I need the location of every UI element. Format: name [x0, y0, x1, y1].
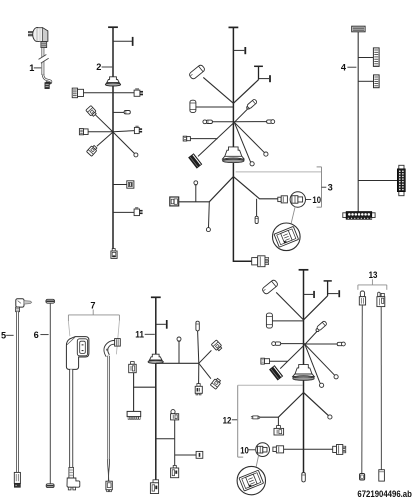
connector 5a angle plug	[16, 299, 32, 312]
harness4 trunk wire	[357, 32, 359, 212]
cable W7L	[69, 369, 74, 478]
connector 2g	[134, 208, 143, 216]
harness2 right branch wire	[113, 92, 134, 94]
connector 12g box	[274, 426, 284, 435]
connector 2b	[134, 89, 143, 96]
connector 3c small cyl	[247, 99, 258, 109]
label 11	[135, 330, 155, 340]
callout line 12	[238, 384, 303, 386]
connector 12i injector plug	[333, 445, 346, 455]
connector 4b card	[373, 48, 379, 67]
connector 7d plug	[106, 481, 112, 491]
connector 3g plug	[278, 196, 288, 203]
detail circle 10b	[237, 466, 265, 494]
bracket 13	[358, 279, 387, 290]
callout circle 10a	[290, 192, 305, 207]
connector 11d box	[195, 384, 202, 395]
harness12 lateral branch	[284, 448, 333, 450]
svg-text:2: 2	[96, 62, 101, 72]
harness3 stub cylinder pin	[255, 199, 258, 224]
harness12 star ring wire 1	[305, 344, 324, 387]
connector 6b cap	[46, 484, 54, 488]
harness3 star ring wire 1	[234, 122, 268, 156]
label 1	[29, 63, 41, 73]
harness2 grommet	[105, 77, 120, 86]
harness11 left branch	[134, 373, 156, 412]
detail circle 10a	[273, 223, 301, 251]
cable W7R	[108, 356, 110, 481]
connector 4a top ribbon	[352, 26, 365, 32]
harness2 star wire right	[113, 131, 134, 132]
connector 13b	[360, 474, 365, 480]
connector 2c angled	[86, 106, 98, 118]
harness3 Y left wire	[179, 177, 234, 202]
connector 11g ring box	[171, 410, 179, 420]
power cord plug P1	[28, 27, 48, 47]
svg-text:7: 7	[90, 301, 95, 311]
harness12 star ring wire 2	[305, 344, 338, 379]
connector 12e	[261, 358, 270, 364]
bracket 7	[68, 310, 119, 355]
callout leader 3-10	[291, 207, 295, 224]
harness11 grommet	[148, 354, 163, 363]
connector 3a tilted cylinder	[188, 64, 205, 80]
label 12	[223, 415, 232, 425]
connector 12c small cyl	[316, 321, 327, 332]
harness3 trunk wire	[233, 27, 251, 261]
callout line 3	[236, 171, 322, 173]
connector 2h bottom	[111, 249, 117, 259]
label 3	[328, 183, 333, 193]
connector 11b angled	[211, 340, 223, 352]
connector 3d hatched	[189, 154, 202, 168]
connector 7b plug	[67, 478, 80, 490]
svg-text:3: 3	[328, 183, 333, 193]
harness2 pin branch	[113, 111, 130, 114]
harness3 star wire to hatch	[198, 122, 234, 156]
connector 13a	[359, 291, 365, 305]
label 5	[1, 330, 14, 340]
harness11 ring pin up	[177, 337, 181, 363]
harness12 stub to box	[277, 417, 279, 425]
harness11 trunk wire	[155, 297, 157, 480]
harness12 star wire up-right	[305, 330, 318, 344]
harness12 trunk wire	[303, 270, 305, 473]
harness3 top cap	[229, 26, 239, 28]
harness3 grommet	[223, 147, 245, 163]
harness3 stub ring down	[206, 202, 210, 232]
harness12 star right pin	[305, 342, 345, 346]
harness11 star wire down	[198, 363, 200, 383]
harness12 top cap	[299, 269, 309, 271]
power cord cable W1	[38, 48, 50, 75]
cable W13R	[380, 307, 382, 470]
harness11 I-box branch	[175, 451, 203, 458]
connector 12h plug left	[273, 446, 284, 453]
harness12 Y left wire	[260, 393, 304, 418]
svg-text:10: 10	[240, 445, 249, 455]
connector 2f angled	[86, 144, 98, 156]
connector 11h box	[171, 466, 179, 478]
cable W13L	[361, 305, 364, 474]
harness4 branch 2	[358, 80, 373, 82]
harness3 upper-right stub	[233, 66, 271, 103]
harness2 fuse box branch	[113, 181, 134, 188]
connector 3h injector plug	[252, 256, 269, 267]
harness11 star wire down-right	[199, 363, 211, 378]
svg-text:1: 1	[29, 63, 34, 73]
connector 7a boot	[66, 337, 89, 370]
harness2 star wire down-right ring	[113, 132, 138, 157]
label 4	[341, 62, 357, 72]
label 10b	[240, 445, 255, 455]
label 10a	[306, 195, 321, 205]
harness2 branch to I-terminal	[113, 37, 134, 46]
harness3 star right pin	[233, 120, 274, 124]
connector 13d cylinder	[379, 470, 385, 481]
svg-text:6: 6	[34, 330, 39, 340]
harness11 branch I-terminal	[156, 320, 168, 329]
connector 11a small cyl	[196, 321, 199, 363]
harness12 bottom tip	[302, 473, 306, 482]
harness3 Y right wire	[233, 177, 277, 199]
connector 4c card	[374, 75, 380, 88]
harness3 feed wire	[190, 138, 217, 140]
callout leader 12-10	[256, 455, 258, 466]
bracket 12	[232, 385, 243, 457]
harness3 wire left cylinder	[196, 106, 233, 108]
harness2 star wire up-left	[95, 115, 113, 132]
harness3 stub pin ring up	[194, 181, 198, 202]
harness12 grommet	[293, 365, 315, 381]
harness4 branch 1	[358, 57, 373, 59]
connector 11c angled	[210, 377, 221, 389]
harness2 star wire left	[88, 131, 113, 133]
harness4 branch 3	[358, 180, 397, 182]
svg-text:12: 12	[223, 415, 232, 425]
connector 13c	[377, 292, 385, 306]
harness12 star wire to hatch	[280, 344, 305, 368]
connector 11i bottom box	[150, 480, 158, 494]
label 13	[369, 270, 378, 280]
harness12 upper-right stub	[304, 281, 341, 320]
connector 4d multipin vertical	[397, 165, 405, 195]
svg-text:6721904496.ab: 6721904496.ab	[357, 489, 412, 499]
connector 12d hatched	[270, 366, 283, 380]
connector 11f comb	[127, 411, 141, 419]
connector 2d	[79, 129, 88, 135]
cable W6	[49, 303, 51, 484]
harness3 star ring wire 2	[234, 122, 254, 166]
connector 3e	[183, 136, 190, 141]
harness3 star left pin	[203, 120, 233, 124]
harness11 star wire up-right	[199, 350, 212, 363]
connector 2e	[134, 126, 142, 133]
harness3 wire to tilted cylinder	[203, 77, 233, 103]
connector 2a ribbon	[72, 88, 83, 98]
connector 12a tilted cylinder	[261, 279, 278, 295]
connector 7c boot	[106, 339, 120, 356]
harness3 branch I-terminal	[233, 47, 246, 54]
harness2 top cap	[108, 26, 118, 28]
harness2 left branch wire	[83, 92, 113, 94]
svg-text:11: 11	[135, 330, 144, 340]
harness12 Y right ring	[304, 393, 333, 420]
harness2 lower branch	[113, 211, 134, 213]
harness3 star wire up-right	[234, 108, 248, 122]
label 2	[96, 62, 112, 72]
harness2 trunk wire	[112, 27, 114, 250]
harness11 lateral wire	[156, 362, 199, 364]
connector 11e box	[129, 362, 137, 373]
harness12 branch I-terminal	[304, 291, 315, 298]
svg-text:4: 4	[341, 62, 347, 72]
harness12 feed wire	[270, 360, 288, 362]
connector 6a cap	[46, 299, 55, 303]
connector 3b cylinder	[190, 100, 196, 112]
harness11 right branch	[156, 420, 175, 467]
svg-text:13: 13	[369, 270, 378, 280]
connector 5b	[14, 472, 20, 487]
harness12 wire left cylinder	[272, 320, 303, 322]
cable W5	[16, 312, 19, 473]
connector 3f box	[170, 197, 179, 206]
harness12 star left pin	[272, 342, 305, 346]
part number text	[357, 489, 412, 499]
connector 12f pin	[251, 416, 260, 419]
label 7	[90, 301, 95, 311]
connector 12b cylinder	[266, 313, 272, 328]
bracket 3	[317, 167, 327, 207]
label 6	[34, 330, 49, 340]
svg-text:10: 10	[312, 195, 321, 205]
harness2 star wire down-left	[97, 132, 113, 146]
callout circle 10b	[256, 443, 270, 457]
svg-text:5: 5	[1, 330, 6, 340]
harness11 top cap	[151, 296, 161, 298]
harness12 wire to tilted cylinder	[276, 292, 303, 320]
connector 4e multipin horizontal	[343, 212, 375, 220]
power cord end hook and terminal	[43, 74, 51, 89]
